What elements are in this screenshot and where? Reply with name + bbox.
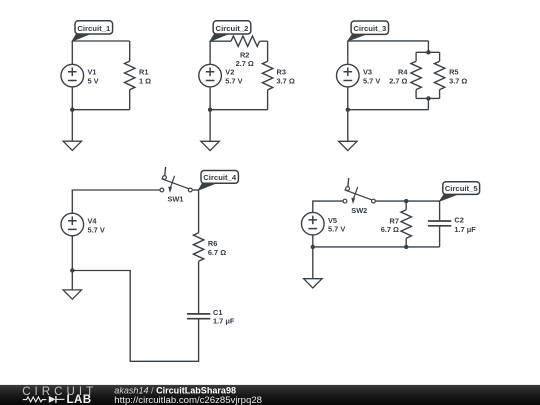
svg-text:R7: R7: [390, 216, 399, 225]
svg-text:LAB: LAB: [67, 393, 92, 405]
svg-text:R6: R6: [208, 239, 217, 248]
svg-text:Circuit_2: Circuit_2: [216, 24, 249, 33]
junction dot circuit4: [70, 268, 74, 272]
resistor R7: [405, 201, 407, 210]
svg-text:V1: V1: [88, 68, 97, 77]
resistor R3: [262, 61, 272, 90]
switch SW1 left terminal: [160, 188, 164, 192]
junction dot circuit3 top: [426, 50, 430, 54]
svg-text:5.7 V: 5.7 V: [225, 76, 242, 85]
switch SW2 throw terminal: [346, 187, 350, 191]
node label Circuit_1 box: [75, 21, 113, 34]
voltage source V3: [337, 64, 360, 87]
switch SW1 right terminal: [188, 188, 192, 192]
svg-text:Circuit_5: Circuit_5: [445, 184, 479, 193]
wire circuit4 switch to node: [192, 189, 198, 191]
wire circuit4 node down to R6: [198, 190, 200, 233]
switch SW1 actuator arrow: [171, 176, 175, 188]
svg-text:3.7 Ω: 3.7 Ω: [277, 76, 295, 85]
wire circuit2 left-lower: [209, 87, 211, 110]
resistor R2: [231, 36, 260, 46]
wire circuit5 V5 lower: [312, 235, 314, 247]
wire circuit2 bottom: [210, 109, 268, 111]
ground circuit5: [304, 279, 322, 288]
wire circuit2 ground stem: [209, 110, 211, 142]
node label Circuit_4 box: [201, 171, 238, 184]
switch SW1 throw terminal: [163, 176, 167, 180]
wire circuit3 ground stem: [347, 110, 349, 142]
wire circuit5 bottom: [313, 246, 440, 248]
node label Circuit_3 box: [351, 21, 388, 34]
wire circuit4 C1 down and return path: [72, 271, 198, 362]
wire circuit3 right rise: [427, 98, 429, 109]
junction dot circuit3 left: [346, 108, 350, 112]
node Circuit_4 flag pointer: [199, 182, 218, 190]
voltage source V5: [302, 212, 325, 235]
resistor R1: [129, 41, 131, 61]
wire circuit5 V5 to switch: [313, 201, 343, 212]
svg-text:5.7 V: 5.7 V: [88, 225, 105, 234]
junction dot circuit5 left: [311, 245, 315, 249]
wire circuit5 switch to C2 branch: [375, 200, 439, 202]
svg-text:R3: R3: [277, 68, 286, 77]
wire circuit4 ground stem: [71, 271, 73, 290]
junction dot circuit2: [208, 108, 212, 112]
wire circuit4 V4 to switch: [72, 190, 160, 213]
svg-text:2.7 Ω: 2.7 Ω: [389, 76, 407, 85]
wire circuit1 top: [72, 40, 129, 42]
svg-text:1 Ω: 1 Ω: [139, 76, 151, 85]
node label Circuit_5 box: [443, 182, 480, 195]
svg-text:C1: C1: [213, 308, 222, 317]
svg-text:5.7 V: 5.7 V: [328, 225, 345, 234]
wire SW2 top throw stub: [347, 178, 350, 187]
switch SW2 actuator arrow: [354, 187, 358, 199]
wire circuit2 left-upper: [209, 41, 211, 64]
svg-text:akash14 / CircuitLabShara98: akash14 / CircuitLabShara98: [114, 386, 236, 396]
wire circuit3 bottom: [348, 109, 429, 111]
svg-text:1.7 μF: 1.7 μF: [454, 225, 476, 234]
svg-text:V2: V2: [225, 68, 234, 77]
wire circuit3 left-upper: [347, 41, 349, 64]
switch SW1 blade: [161, 179, 188, 189]
CircuitLab logo diode: [49, 396, 56, 403]
svg-text:R4: R4: [398, 68, 408, 77]
node Circuit_2 flag pointer: [210, 33, 230, 41]
wire circuit4 V4 to junction: [71, 236, 73, 271]
wire circuit5 C2 branch upper: [439, 201, 441, 220]
svg-text:V5: V5: [328, 216, 337, 225]
svg-text:6.7 Ω: 6.7 Ω: [208, 248, 226, 257]
svg-text:R5: R5: [449, 68, 458, 77]
wire circuit1 left-upper: [71, 41, 73, 64]
switch SW2 blade: [345, 190, 372, 200]
wire circuit5 ground stem: [312, 247, 314, 279]
wire circuit1 left-lower: [71, 87, 73, 110]
wire circuit1 bottom: [72, 109, 129, 111]
svg-text:Circuit_3: Circuit_3: [353, 24, 386, 33]
node Circuit_5 flag pointer: [440, 193, 460, 201]
voltage source V2: [199, 64, 222, 87]
ground circuit4: [63, 290, 81, 299]
wire circuit4 R6 to C1: [198, 261, 200, 313]
svg-text:SW1: SW1: [167, 195, 183, 204]
svg-text:Circuit_4: Circuit_4: [203, 173, 237, 182]
ground circuit2: [201, 141, 219, 150]
junction dot circuit3 bottom: [426, 96, 430, 100]
node Circuit_3 flag pointer: [348, 33, 368, 41]
node Circuit_1 flag pointer: [72, 33, 92, 41]
voltage source V4: [61, 213, 84, 236]
svg-text:V3: V3: [363, 68, 372, 77]
junction dot circuit5 R7 top: [404, 199, 408, 203]
svg-text:5.7 V: 5.7 V: [363, 76, 380, 85]
svg-text:Circuit_1: Circuit_1: [77, 24, 111, 33]
resistor R6: [193, 233, 203, 261]
wire circuit2 right-upper: [267, 41, 269, 61]
wire circuit1 ground stem: [71, 110, 73, 142]
wire circuit3 parallel bottom bar: [416, 97, 440, 99]
wire circuit3 left-lower: [347, 87, 349, 110]
switch SW2 right terminal: [372, 199, 376, 203]
junction dot circuit5 R7 bottom: [404, 245, 408, 249]
wire SW1 top throw stub: [164, 167, 167, 176]
svg-text:1.7 μF: 1.7 μF: [213, 317, 235, 326]
switch SW2 left terminal: [343, 199, 347, 203]
wire circuit2 top-left: [210, 40, 231, 42]
wire circuit5 C2 branch lower: [439, 227, 441, 247]
resistor R5: [439, 52, 441, 61]
footer bar: [0, 385, 540, 405]
resistor R4: [415, 52, 417, 61]
node label Circuit_2 box: [213, 21, 251, 34]
junction dot circuit1: [70, 108, 74, 112]
svg-text:6.7 Ω: 6.7 Ω: [381, 225, 399, 234]
capacitor C1: [187, 314, 210, 319]
wire circuit3 top: [348, 40, 429, 42]
voltage source V1: [61, 64, 84, 87]
svg-text:2.7 Ω: 2.7 Ω: [236, 59, 254, 68]
wire circuit3 parallel top bar: [416, 51, 440, 53]
CircuitLab logo resistor zigzag: [23, 397, 47, 402]
svg-text:SW2: SW2: [351, 206, 367, 215]
svg-text:http://circuitlab.com/c26z85vj: http://circuitlab.com/c26z85vjrpq28: [114, 395, 262, 405]
wire circuit3 right drop: [427, 41, 429, 52]
svg-text:V4: V4: [88, 217, 98, 226]
ground circuit1: [63, 141, 81, 150]
wire circuit2 top-right: [260, 40, 268, 42]
ground circuit3: [339, 141, 357, 150]
svg-text:3.7 Ω: 3.7 Ω: [449, 76, 467, 85]
svg-text:R1: R1: [139, 68, 148, 77]
capacitor C2: [428, 221, 451, 226]
svg-text:5 V: 5 V: [88, 76, 99, 85]
svg-text:C2: C2: [454, 216, 463, 225]
